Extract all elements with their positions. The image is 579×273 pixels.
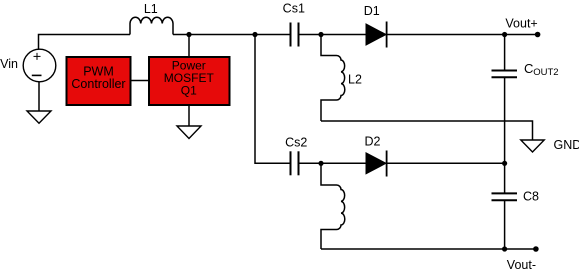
svg-text:D1: D1: [364, 4, 380, 18]
label Vout+: [505, 16, 537, 30]
voltage source Vin: [23, 49, 56, 82]
label Cs2: [285, 136, 307, 150]
wire node A to Q1: [188, 35, 190, 58]
label D2: [365, 135, 381, 149]
node junction D (Vout+ node): [502, 32, 507, 37]
PWM controller block: [67, 57, 131, 105]
node junction B: [252, 32, 257, 37]
wire bottom rail to Vout- terminal: [321, 248, 536, 250]
label Cs1: [283, 2, 305, 16]
svg-text:C: C: [524, 61, 533, 76]
svg-text:OUT2: OUT2: [533, 67, 558, 78]
svg-text:Cs2: Cs2: [285, 136, 307, 150]
svg-text:C8: C8: [523, 190, 539, 204]
label GND: [554, 138, 579, 152]
label L1: [144, 2, 158, 16]
svg-text:Vout+: Vout+: [505, 16, 537, 30]
label COUT2: [524, 61, 559, 78]
inductor L3 (lower coupled inductor): [321, 163, 345, 249]
wire node B down to Cs2 row: [255, 35, 291, 164]
ground Vin: [27, 111, 51, 123]
terminal Vout-: [533, 246, 539, 252]
label C8: [523, 190, 539, 204]
wire Cs1 to Vout+ terminal: [299, 34, 538, 36]
svg-text:Controller: Controller: [71, 77, 125, 91]
terminal Vout+: [535, 32, 541, 38]
wire Vin to L1: [39, 35, 131, 50]
label L2: [348, 73, 362, 87]
svg-text:GND: GND: [554, 138, 579, 152]
wire PWM to Q1: [131, 80, 150, 82]
svg-text:L2: L2: [348, 73, 362, 87]
wire Q1 to ground: [188, 105, 190, 126]
wire L2 bottom to GND: [321, 121, 533, 140]
label D1: [364, 4, 380, 18]
node junction G: [502, 246, 507, 251]
diode D2: [366, 151, 387, 177]
node junction F: [502, 161, 507, 166]
svg-text:Q1: Q1: [181, 83, 197, 97]
svg-text:D2: D2: [365, 135, 381, 149]
diode D1: [366, 22, 387, 48]
svg-text:Vin: Vin: [0, 57, 18, 71]
node junction A (drain node): [186, 32, 191, 37]
node junction C: [318, 32, 323, 37]
label Vout-: [507, 258, 536, 272]
svg-text:Vout-: Vout-: [507, 258, 536, 272]
wire Cs2 to node F: [299, 162, 505, 164]
capacitor Cs2: [291, 151, 299, 175]
capacitor C8: [492, 163, 518, 249]
svg-text:L1: L1: [144, 2, 158, 16]
wire L1 to Cs1: [173, 34, 291, 36]
node junction E: [318, 161, 323, 166]
ground GND symbol: [521, 140, 544, 152]
transistor block Q1 (Power MOSFET): [149, 57, 230, 105]
ground Q1: [177, 126, 201, 139]
label Vin: [0, 57, 18, 71]
svg-text:Cs1: Cs1: [283, 2, 305, 16]
capacitor COUT2: [492, 35, 518, 164]
wire Vin to ground: [38, 82, 40, 111]
capacitor Cs1: [291, 23, 299, 47]
inductor L2: [321, 35, 345, 122]
inductor L1: [130, 17, 173, 34]
